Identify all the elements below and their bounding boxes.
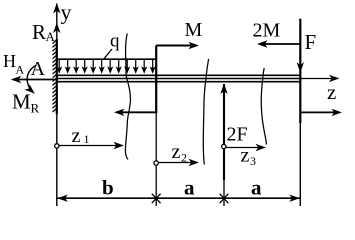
section line 1 (wavy) (125, 34, 130, 160)
moment 2M top arm arrow (left) (260, 43, 300, 45)
beam top line (57, 74, 300, 76)
svg-text:R: R (31, 101, 40, 116)
wall support line (fixed end) (56, 4, 58, 207)
moment M vertical extension to dimension line (155, 114, 157, 207)
coordinate z1 arrow (59, 145, 121, 147)
svg-text:H: H (3, 51, 16, 71)
z axis (300, 78, 337, 80)
svg-text:M: M (185, 19, 203, 41)
svg-text:2: 2 (181, 151, 187, 165)
svg-text:a: a (251, 176, 262, 200)
dimension right end arrowhead (289, 195, 300, 202)
svg-text:M: M (12, 90, 31, 114)
svg-text:z: z (241, 145, 250, 167)
dimension left end arrowhead (57, 195, 68, 202)
coordinate z2 origin circle (154, 161, 158, 165)
beam end vertical / force F line (299, 19, 301, 123)
moment M couple vertical line (155, 46, 157, 114)
section line 2 (wavy) (203, 59, 208, 165)
svg-text:a: a (184, 176, 195, 200)
svg-text:F: F (305, 30, 317, 54)
coordinate z2 arrow (158, 162, 196, 164)
svg-text:b: b (102, 176, 114, 200)
svg-text:A: A (46, 29, 56, 44)
svg-text:A: A (31, 58, 46, 80)
y axis arrowhead (53, 3, 60, 14)
reaction moment M_R arc (27, 65, 36, 93)
svg-text:1: 1 (84, 132, 90, 146)
moment 2M bottom arm arrow (right) (300, 111, 339, 113)
reaction R_A arrowhead (53, 23, 60, 34)
reaction H_A arrow (13, 79, 57, 81)
svg-text:2M: 2M (253, 20, 281, 42)
svg-text:q: q (110, 31, 120, 52)
q leader tick (104, 49, 112, 59)
dimension line (57, 197, 300, 199)
dimension X mark at a/a boundary (220, 194, 229, 204)
svg-text:3: 3 (250, 154, 256, 168)
section line 3 (wavy) (261, 68, 266, 145)
svg-text:2F: 2F (227, 124, 248, 146)
force 2F line (223, 84, 225, 180)
coordinate z1 origin circle (55, 144, 59, 148)
distributed load arrows (59, 60, 153, 70)
svg-text:z: z (327, 80, 336, 104)
force 2F arrowhead (up) (220, 84, 227, 95)
distributed load q top line (57, 58, 156, 60)
svg-text:R: R (32, 20, 46, 44)
moment M bottom arm arrow (left) (117, 111, 156, 113)
svg-text:A: A (16, 63, 25, 77)
dimension X mark at b/a boundary (152, 194, 161, 204)
coordinate z3 arrow (226, 147, 263, 149)
beam bottom line (57, 81, 300, 83)
coordinate z3 origin circle (222, 144, 226, 148)
moment M top arm arrow (right) (156, 45, 196, 47)
wall hatching (53, 40, 57, 112)
beam middle line (57, 78, 300, 80)
svg-text:y: y (61, 0, 72, 25)
svg-text:z: z (72, 125, 81, 147)
force F arrowhead (down) (297, 62, 304, 73)
svg-text:z: z (172, 141, 181, 163)
